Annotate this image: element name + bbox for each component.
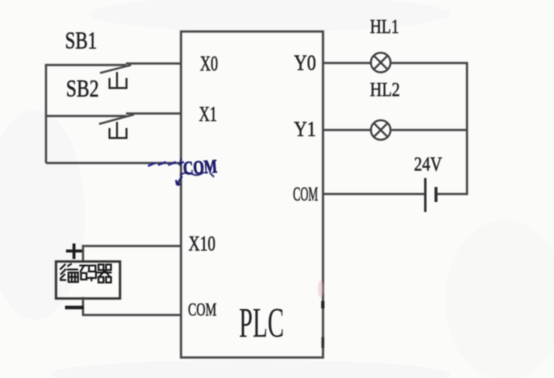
码 xyxy=(80,266,88,280)
battery 24V short plate xyxy=(435,187,438,202)
svg-text:HL1: HL1 xyxy=(370,16,399,38)
switch SB2 blade xyxy=(99,115,134,125)
svg-text:Y1: Y1 xyxy=(294,117,316,141)
PLC box U1 xyxy=(181,32,323,358)
wire encoder plus lead vertical xyxy=(82,245,84,262)
svg-text:PLC: PLC xyxy=(239,301,284,347)
battery 24V long plate xyxy=(424,178,426,212)
encoder text 编码器 (drawn strokes) xyxy=(61,264,112,283)
wire X1 row left segment xyxy=(45,115,126,117)
svg-text:COM: COM xyxy=(293,184,318,206)
wire Y0 row right of lamp xyxy=(390,62,468,64)
wire Y0 row left of lamp xyxy=(323,62,372,64)
blue ink dashes on COM wire xyxy=(148,162,184,166)
red ink smudge on PLC right edge xyxy=(318,281,324,298)
svg-text:X10: X10 xyxy=(189,232,216,256)
编 xyxy=(61,265,66,281)
wire X1 row right segment xyxy=(126,112,181,114)
svg-text:24V: 24V xyxy=(414,154,442,176)
svg-text:X1: X1 xyxy=(199,102,217,126)
blue ink COM annotation xyxy=(182,156,217,179)
wire X0 row right segment xyxy=(126,62,181,64)
wire Y1 row right of lamp xyxy=(390,129,467,131)
器 xyxy=(99,265,112,271)
switch SB1 blade xyxy=(100,65,131,73)
minus terminal mark xyxy=(65,306,84,310)
lamp HL1 xyxy=(371,53,391,73)
plus terminal mark xyxy=(66,244,82,260)
svg-text:COM: COM xyxy=(188,300,217,320)
blue ink arrow mark below COM xyxy=(176,176,182,185)
wire X10 row horizontal xyxy=(82,245,181,247)
blue ink squiggle over COM xyxy=(180,158,214,177)
wire COM bottom row horizontal xyxy=(82,314,181,316)
wire X0 row left segment xyxy=(45,64,126,66)
wire battery to right bus xyxy=(438,193,469,195)
svg-text:SB2: SB2 xyxy=(66,77,99,103)
svg-text:Y0: Y0 xyxy=(294,50,316,75)
wire COM row (left bus to PLC COM) xyxy=(46,162,181,164)
svg-text:HL2: HL2 xyxy=(370,79,400,101)
wire left bus vertical xyxy=(45,64,47,163)
encoder box 编码器 xyxy=(56,262,120,299)
switch SB2 pushbutton actuator xyxy=(109,122,128,138)
dark ink segment on PLC right edge xyxy=(321,301,324,309)
svg-text:SB1: SB1 xyxy=(65,29,97,55)
lamp HL2 xyxy=(371,120,391,140)
svg-text:X0: X0 xyxy=(200,52,218,76)
wire COM right row to battery xyxy=(323,193,424,195)
wire right bus vertical xyxy=(466,62,468,195)
switch SB1 pushbutton actuator xyxy=(109,72,128,88)
wire encoder minus lead vertical xyxy=(82,297,84,315)
dark ink segment on PLC right edge lower xyxy=(321,337,324,348)
wire Y1 row left of lamp xyxy=(323,129,372,131)
